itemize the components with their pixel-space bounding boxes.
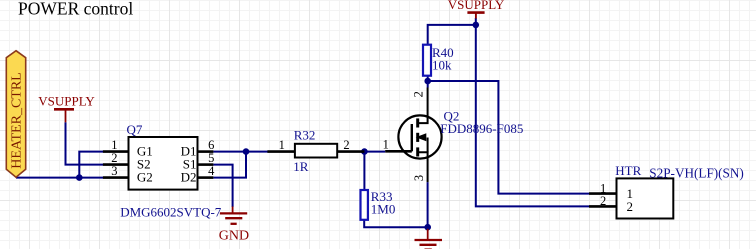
Q2 designator (444, 108, 460, 123)
wire: R40 bottom to drain node (427, 76, 429, 88)
svg-text:2: 2 (600, 194, 606, 208)
R32 designator (294, 127, 316, 142)
Q7 pin 6 (198, 138, 215, 152)
svg-text:VSUPPLY: VSUPPLY (38, 93, 95, 108)
wire: R32 pin2 node to Q2 gate and R33 (364, 151, 385, 153)
wire: VSUPPLY top vertical to HTR pin2 (476, 18, 589, 206)
R32 pin 2 number (343, 138, 349, 152)
Q2 comment FDD8896-F085 (440, 121, 523, 136)
junction dot node A (port/gate tie) (76, 174, 83, 181)
R32 value 1R (293, 159, 309, 174)
svg-text:G2: G2 (137, 170, 153, 185)
connector HTR box (617, 178, 674, 218)
svg-text:VSUPPLY: VSUPPLY (448, 0, 505, 12)
wire: VSUPPLY node branch to R40 top (428, 25, 476, 45)
R32 pin 1 number (279, 138, 285, 152)
Q7 designator (127, 122, 143, 137)
svg-text:1: 1 (279, 138, 285, 152)
resistor R33 (361, 190, 368, 220)
svg-text:HEATER_CTRL: HEATER_CTRL (10, 72, 25, 168)
Q7 pin 2 (103, 151, 129, 165)
svg-text:1: 1 (383, 137, 389, 151)
title POWER control (18, 0, 133, 19)
R40 value 10k (432, 57, 452, 72)
svg-text:1M0: 1M0 (371, 202, 396, 217)
svg-text:1R: 1R (293, 159, 309, 174)
svg-text:6: 6 (208, 138, 214, 152)
svg-text:10k: 10k (432, 57, 452, 72)
power port VSUPPLY (left) (38, 93, 95, 122)
ground GND (under Q7 pin5) (219, 207, 249, 244)
Q7 pin 4 (198, 164, 216, 178)
Q2 pin 3 (source) number (412, 175, 426, 181)
Q7 pin 5 (198, 151, 215, 165)
svg-text:3: 3 (111, 164, 117, 178)
wire: VSUPPLY left vertical to Q7 pin2 row (66, 122, 104, 164)
transistor Q7 (dual MOSFET box) (129, 137, 198, 190)
svg-text:S2P-VH(LF)(SN): S2P-VH(LF)(SN) (649, 165, 744, 180)
HTR pin 1 (589, 181, 633, 201)
HTR pin 2 (589, 194, 633, 214)
svg-text:5: 5 (208, 151, 214, 165)
resistor R40 (423, 45, 431, 76)
svg-text:3: 3 (412, 175, 426, 181)
svg-text:2: 2 (627, 199, 634, 214)
svg-text:R32: R32 (294, 127, 316, 142)
svg-text:4: 4 (208, 164, 215, 178)
svg-text:POWER control: POWER control (18, 0, 133, 19)
HTR designator (615, 163, 641, 178)
svg-text:Q7: Q7 (127, 122, 143, 137)
ground (under Q2 source) (415, 229, 443, 249)
svg-text:GND: GND (219, 228, 249, 243)
svg-text:2: 2 (412, 91, 426, 97)
junction dot node C (gate/R33) (361, 148, 368, 155)
junction dot node F (source / R33 / GND) (424, 224, 431, 231)
power port VSUPPLY (top) (448, 0, 505, 18)
Q7 pin 1 (103, 138, 129, 152)
HTR comment S2P-VH(LF)(SN) (649, 165, 744, 180)
Q7 pin 3 (103, 164, 129, 178)
transistor Q2 (N-MOSFET) (385, 88, 441, 183)
svg-text:DMG6602SVTQ-7: DMG6602SVTQ-7 (120, 204, 222, 219)
svg-text:HTR: HTR (615, 163, 641, 178)
wire: Q7 pin5 to GND (213, 165, 232, 207)
R33 value 1M0 (371, 202, 396, 217)
wire: Q2 source down to bottom node (427, 182, 429, 227)
R33 designator (371, 189, 393, 204)
wire: vertical tie row3 to row1 (79, 152, 103, 178)
svg-text:2: 2 (343, 138, 349, 152)
svg-text:1: 1 (111, 138, 117, 152)
Q7 pin names (137, 144, 197, 185)
Q2 pin 2 (drain) number (412, 91, 426, 97)
wire: drain node to HTR pin1 (428, 81, 589, 194)
wire: R33 bottom to source node (364, 220, 428, 227)
resistor R32 (267, 144, 364, 158)
junction dot node D (VSUPPLY top) (473, 22, 480, 29)
Q2 pin 1 (gate) number (383, 137, 389, 151)
wire: gate node down to R33 top (363, 152, 365, 190)
wire: Q7 pin6 row to R32 pin1 (213, 151, 268, 153)
svg-text:FDD8896-F085: FDD8896-F085 (440, 121, 523, 136)
wire: HEATER_CTRL row3 to Q7 pin3 (16, 177, 103, 179)
R40 designator (432, 45, 454, 60)
Q7 comment DMG6602SVTQ-7 (120, 204, 222, 219)
junction dot node E (R40 bottom / drain) (424, 78, 431, 85)
wire: Q7 pin4 tie to pin6 node (213, 152, 246, 178)
junction dot node B (D1/D2 tie) (243, 148, 250, 155)
port HEATER_CTRL (6, 51, 25, 178)
svg-text:2: 2 (111, 151, 117, 165)
svg-text:D2: D2 (181, 170, 197, 185)
